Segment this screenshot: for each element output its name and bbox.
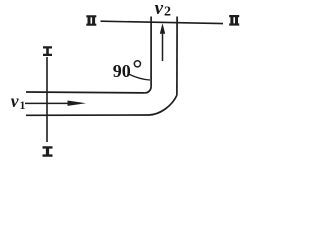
degree ring of 90° [134, 61, 140, 67]
pipe right wall (vertical riser) [176, 17, 178, 96]
svg-text:v: v [155, 0, 164, 19]
angle arc [129, 74, 151, 80]
label I (top) : serif capital I drawn as bars [43, 46, 52, 56]
svg-text:1: 1 [20, 100, 26, 112]
velocity arrow v1 shaft [25, 102, 72, 104]
velocity arrow v2 shaft [162, 31, 164, 61]
pipe bottom wall (horizontal run) [26, 114, 149, 116]
pipe left wall (vertical riser) [150, 17, 152, 87]
label II (left) : two merged serif I bars [86, 15, 96, 26]
svg-text:90: 90 [113, 61, 131, 81]
svg-text:2: 2 [164, 5, 171, 20]
outer bend curve [149, 95, 177, 115]
inner bend fillet [145, 86, 151, 93]
svg-text:v: v [11, 91, 19, 111]
section line II-II [101, 21, 224, 23]
label I (bottom) [43, 146, 53, 156]
label II (right) [229, 15, 239, 26]
pipe top wall (horizontal run) [26, 91, 145, 94]
velocity arrow v2 head [160, 23, 165, 34]
section line I-I [46, 57, 48, 142]
velocity arrow v1 head [68, 101, 87, 106]
